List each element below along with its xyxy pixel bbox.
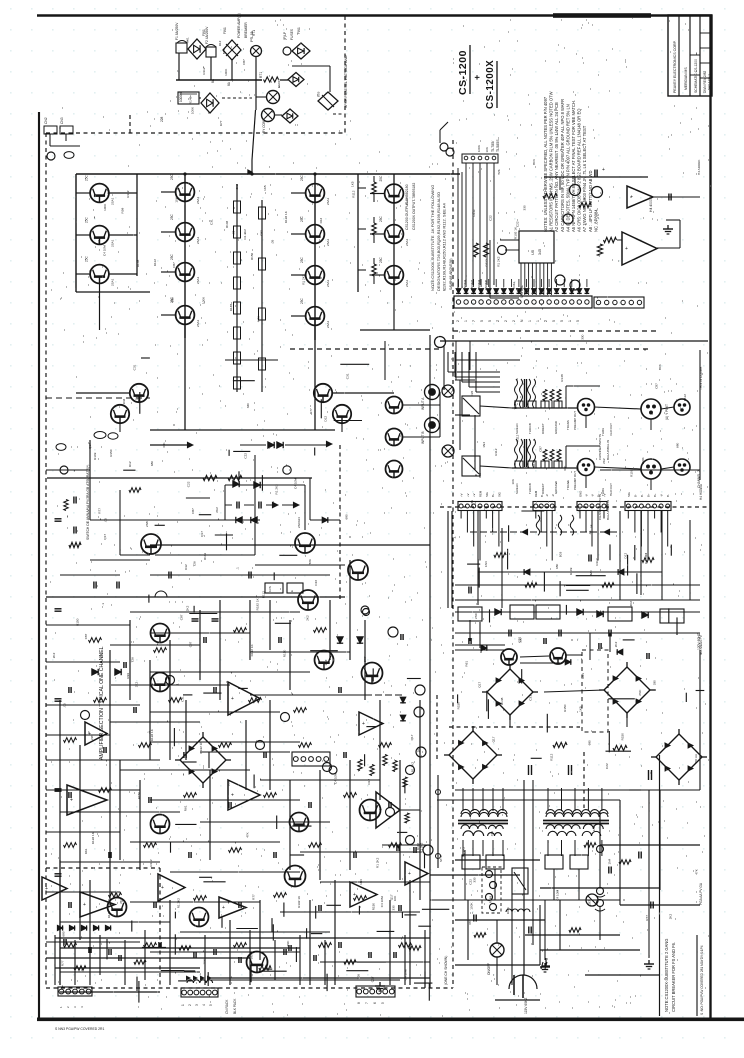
svg-text:FW1: FW1 bbox=[223, 27, 227, 34]
bus wire bbox=[176, 79, 262, 81]
svg-text:25C: 25C bbox=[170, 213, 174, 220]
svg-text:CS-1200: CS-1200 bbox=[457, 50, 469, 95]
svg-text:C87: C87 bbox=[654, 383, 658, 389]
svg-text:10K: 10K bbox=[511, 478, 515, 484]
resistor R249 bbox=[354, 896, 367, 901]
wire bbox=[55, 967, 200, 969]
wire bbox=[250, 694, 365, 696]
wire bbox=[76, 192, 91, 194]
svg-text:R112: R112 bbox=[149, 859, 153, 866]
svg-text:SIG: SIG bbox=[627, 492, 631, 497]
capacitor C150 bbox=[398, 905, 400, 911]
jack XLR bbox=[641, 459, 661, 479]
svg-text:A7 1NWG NOT 5903 P/N4 JN .TL L: A7 1NWG NOT 5903 P/N4 JN .TL L6 7 SELECT… bbox=[582, 125, 587, 232]
svg-text:C4 10M: C4 10M bbox=[403, 969, 407, 980]
bridge rectifier CR2 bbox=[604, 667, 650, 713]
svg-text:2SA1: 2SA1 bbox=[405, 238, 409, 246]
wire bbox=[349, 760, 351, 870]
svg-text:2SA1: 2SA1 bbox=[326, 238, 330, 246]
svg-text:2K2: 2K2 bbox=[306, 615, 310, 621]
svg-text:R192 1K: R192 1K bbox=[297, 895, 301, 908]
selector tabs bbox=[515, 461, 523, 468]
wire bbox=[465, 163, 467, 285]
svg-text:R99: R99 bbox=[126, 673, 130, 679]
svg-text:C31: C31 bbox=[470, 500, 474, 506]
svg-text:SWITCH DE AMNA/NA FV/JRA GB A: SWITCH DE AMNA/NA FV/JRA GB ATSURATR(*) bbox=[86, 465, 90, 540]
resistor box bbox=[458, 607, 482, 621]
selector tabs bbox=[515, 401, 523, 408]
svg-text:R1 2K2: R1 2K2 bbox=[243, 229, 247, 240]
title block bbox=[668, 15, 712, 96]
transistor Q5 bbox=[176, 223, 195, 242]
wire bbox=[55, 937, 430, 939]
resistor R251 bbox=[64, 943, 77, 948]
svg-text:25C: 25C bbox=[85, 174, 89, 181]
svg-text:C87: C87 bbox=[189, 641, 193, 647]
wire bbox=[443, 345, 445, 390]
wire bbox=[150, 799, 300, 801]
wire bbox=[269, 600, 271, 650]
svg-text:RY CONN: RY CONN bbox=[262, 118, 266, 133]
svg-text:R77: R77 bbox=[61, 960, 65, 966]
svg-text:+V: +V bbox=[466, 493, 470, 497]
op-amp U11 bbox=[359, 712, 383, 735]
svg-text:R109: R109 bbox=[630, 469, 634, 477]
wire bbox=[209, 770, 211, 860]
svg-text:47K: 47K bbox=[162, 442, 166, 448]
resistor R206 bbox=[314, 628, 327, 633]
transistor Q2 bbox=[90, 226, 109, 245]
wire bbox=[358, 187, 366, 189]
svg-text:25C: 25C bbox=[379, 215, 383, 222]
op-amp U2 bbox=[67, 785, 107, 815]
svg-text:330: 330 bbox=[580, 334, 584, 339]
wire bbox=[563, 279, 565, 287]
wire bbox=[129, 620, 131, 700]
wire bbox=[46, 734, 110, 736]
svg-text:2SC: 2SC bbox=[638, 689, 642, 696]
wire bbox=[490, 297, 519, 299]
wire bbox=[373, 235, 375, 243]
svg-text:4.7K: 4.7K bbox=[256, 315, 260, 322]
svg-text:-V: -V bbox=[545, 494, 549, 497]
svg-text:R112: R112 bbox=[153, 259, 157, 266]
rail bbox=[393, 174, 395, 300]
svg-text:3: 3 bbox=[195, 1004, 199, 1006]
svg-text:C87: C87 bbox=[363, 656, 367, 662]
wire bbox=[110, 684, 230, 686]
wire bbox=[458, 279, 460, 287]
wire bbox=[480, 466, 512, 468]
capacitor C109 bbox=[133, 707, 135, 713]
wire bbox=[46, 661, 120, 663]
lamp1 bbox=[267, 91, 280, 104]
wire bbox=[437, 799, 620, 801]
diode pin bbox=[517, 289, 522, 294]
resistor RL5 bbox=[234, 327, 241, 339]
wire bbox=[89, 880, 91, 985]
resistor bbox=[474, 243, 479, 257]
wire bbox=[329, 600, 331, 660]
ground bbox=[379, 982, 381, 986]
resistor R221 bbox=[299, 743, 312, 748]
resistor R219 bbox=[219, 743, 232, 748]
wire bbox=[465, 279, 467, 287]
transistor Q48 bbox=[108, 898, 127, 917]
transformer secondary bbox=[546, 825, 580, 829]
wire bbox=[565, 446, 567, 468]
dashed box regulator bbox=[582, 650, 608, 732]
balance transformer box bbox=[462, 456, 480, 476]
wire bbox=[291, 233, 306, 235]
note column rule bbox=[659, 755, 661, 1016]
svg-text:C22: C22 bbox=[605, 763, 609, 769]
svg-text:A5 NP NPN 1458/7WH 8P SELECT A: A5 NP NPN 1458/7WH 8P SELECT AT FINAL TE… bbox=[571, 100, 576, 232]
border left bbox=[38, 112, 40, 1020]
wire bbox=[46, 624, 130, 626]
svg-text:R77: R77 bbox=[309, 408, 313, 414]
thermal breaker bbox=[251, 46, 262, 57]
resistor R243 bbox=[109, 893, 122, 898]
wire bbox=[535, 511, 537, 519]
capacitor C120 bbox=[263, 752, 265, 758]
resistor R223 bbox=[379, 743, 392, 748]
wire bbox=[370, 233, 385, 235]
svg-text:2K2: 2K2 bbox=[614, 641, 618, 647]
wire bbox=[299, 935, 301, 985]
svg-text:R150: R150 bbox=[372, 903, 376, 911]
wire bbox=[509, 715, 511, 727]
wire bbox=[161, 231, 176, 233]
op-amp U5 bbox=[80, 892, 115, 917]
terminal bbox=[81, 711, 90, 720]
op-amp U8 bbox=[350, 882, 377, 907]
border top bbox=[37, 14, 712, 17]
resistor bbox=[344, 960, 356, 965]
svg-text:C4 10M: C4 10M bbox=[644, 552, 648, 563]
svg-text:.1: .1 bbox=[176, 683, 180, 686]
transistor Q12 bbox=[385, 184, 404, 203]
svg-text:T26: T26 bbox=[308, 559, 312, 565]
svg-text:REM: REM bbox=[534, 490, 538, 497]
resistor bbox=[553, 742, 567, 747]
svg-text:PREAMP OUT: PREAMP OUT bbox=[573, 471, 577, 490]
diode pin bbox=[509, 289, 514, 294]
wire bbox=[291, 315, 306, 317]
transistor Q46 bbox=[190, 908, 209, 927]
wire bbox=[150, 574, 330, 576]
resistor R235 bbox=[144, 843, 157, 848]
svg-text:2SC: 2SC bbox=[474, 612, 478, 619]
bridge rectifier CR3 bbox=[449, 731, 497, 779]
svg-text:1K5: 1K5 bbox=[351, 181, 355, 187]
resistor RL2 bbox=[234, 252, 241, 264]
capacitor bbox=[55, 608, 62, 610]
resistor R1 bbox=[264, 77, 279, 82]
strip bus bbox=[512, 407, 578, 409]
note column rule2 bbox=[696, 935, 698, 1016]
svg-text:R150: R150 bbox=[282, 650, 286, 658]
svg-text:FUSES: FUSES bbox=[290, 28, 294, 40]
wire bbox=[250, 651, 350, 653]
wire bbox=[249, 930, 251, 985]
bridge rectifier CR10 bbox=[180, 737, 226, 783]
svg-text:BAL/UNBAL IN: BAL/UNBAL IN bbox=[606, 440, 610, 460]
connector J10 bbox=[44, 126, 57, 134]
wire bbox=[373, 194, 375, 202]
resistor R259 bbox=[399, 943, 412, 948]
svg-text:+V: +V bbox=[460, 493, 464, 497]
diode pin bbox=[577, 289, 582, 294]
op-amp U1 bbox=[85, 722, 107, 745]
svg-text:B03: B03 bbox=[222, 48, 226, 54]
svg-text:5: 5 bbox=[552, 320, 556, 322]
capacitor bbox=[55, 873, 62, 875]
resistor box bbox=[536, 605, 560, 619]
capacitor bbox=[63, 939, 65, 945]
capacitor C152 bbox=[108, 949, 110, 955]
wire bbox=[319, 770, 321, 880]
resistor bbox=[543, 390, 547, 401]
svg-text:C87: C87 bbox=[588, 900, 592, 906]
wire bbox=[300, 851, 420, 853]
wire bbox=[495, 279, 497, 287]
resistor R213 bbox=[294, 708, 307, 713]
diode D3 on bus bbox=[288, 73, 304, 87]
cap bbox=[668, 194, 670, 201]
capacitor C116 bbox=[103, 747, 105, 753]
svg-text:25C: 25C bbox=[300, 297, 304, 304]
wire bbox=[496, 920, 498, 943]
wire bbox=[585, 511, 587, 533]
wire bbox=[320, 961, 430, 963]
svg-text:R112: R112 bbox=[516, 434, 520, 441]
wire bbox=[617, 239, 622, 241]
capacitor bbox=[88, 947, 90, 953]
transistor Q47 bbox=[247, 952, 268, 973]
thermal sense circle bbox=[283, 466, 291, 474]
svg-text:CN RACK: CN RACK bbox=[225, 999, 229, 1014]
svg-text:C22: C22 bbox=[518, 637, 522, 643]
transistor Q70 bbox=[501, 649, 517, 665]
op-amp U9 bbox=[42, 877, 67, 900]
transformer T bbox=[461, 809, 507, 814]
wire bbox=[464, 850, 466, 900]
svg-text:330: 330 bbox=[563, 466, 567, 471]
dashed below connector bbox=[453, 330, 656, 332]
svg-text:Q17: Q17 bbox=[88, 443, 92, 449]
resistor bbox=[543, 193, 557, 198]
wire bbox=[477, 511, 479, 605]
svg-text:2K2: 2K2 bbox=[602, 458, 606, 464]
svg-text:E: E bbox=[290, 590, 294, 592]
wire bbox=[561, 788, 563, 811]
wire bbox=[587, 788, 589, 811]
svg-text:C87: C87 bbox=[242, 59, 246, 65]
wire bbox=[249, 600, 251, 660]
wire bbox=[574, 788, 576, 811]
svg-text:A4 (-) DENOTES, 50MA TYP IN P/: A4 (-) DENOTES, 50MA TYP IN P/N 4097 ALL… bbox=[565, 104, 570, 232]
resistor R253 bbox=[144, 943, 157, 948]
wire bbox=[539, 905, 541, 965]
diode pin bbox=[501, 289, 506, 294]
transistor Q1 bbox=[90, 184, 109, 203]
capacitor C158 bbox=[368, 952, 370, 958]
capacitor bbox=[55, 698, 62, 700]
capacitor bbox=[638, 852, 640, 859]
svg-text:D12: D12 bbox=[367, 779, 371, 785]
wire bbox=[180, 931, 330, 933]
wire bbox=[199, 610, 201, 680]
svg-text:R112: R112 bbox=[550, 753, 554, 760]
wire bbox=[653, 196, 700, 198]
wire bbox=[486, 163, 488, 285]
wire bbox=[493, 163, 495, 285]
svg-text:680: 680 bbox=[555, 564, 559, 569]
input jack J12 bbox=[425, 418, 440, 433]
svg-text:1K5: 1K5 bbox=[263, 185, 267, 191]
resistor bbox=[604, 237, 617, 242]
wire bbox=[547, 788, 549, 811]
svg-text:R192 1K: R192 1K bbox=[91, 831, 95, 844]
capacitor C144 bbox=[153, 902, 155, 908]
wire bbox=[571, 279, 573, 287]
resistor bbox=[64, 500, 68, 511]
svg-text:B03: B03 bbox=[658, 364, 662, 370]
svg-text:25C: 25C bbox=[300, 174, 304, 181]
svg-text:SHT 1 OF 1: SHT 1 OF 1 bbox=[707, 74, 711, 90]
svg-text:RT1: RT1 bbox=[259, 72, 263, 78]
svg-text:B03: B03 bbox=[316, 91, 320, 97]
svg-text:R61: R61 bbox=[581, 673, 585, 679]
wire bbox=[370, 193, 385, 195]
svg-text:NOTES: UNLESS OTHERWISE SPECIF: NOTES: UNLESS OTHERWISE SPECIFIED, ALL N… bbox=[543, 96, 548, 232]
svg-text:T26: T26 bbox=[97, 239, 101, 245]
diode pin bbox=[486, 289, 491, 294]
wire bbox=[76, 273, 91, 275]
caps big bbox=[528, 765, 530, 775]
svg-text:A6 CRS: DIO8 OD8 PIN P2 8G2 BO: A6 CRS: DIO8 OD8 PIN P2 8G2 BOARD REF AL… bbox=[577, 108, 582, 232]
svg-text:R150: R150 bbox=[456, 702, 460, 710]
diodes bbox=[92, 669, 98, 675]
transistor Q42 bbox=[315, 651, 334, 670]
wire bbox=[455, 859, 540, 861]
wire bbox=[619, 511, 621, 600]
wire bbox=[120, 554, 150, 556]
terminal bbox=[406, 836, 415, 845]
connector J7B bbox=[625, 502, 671, 511]
svg-text:25C: 25C bbox=[379, 175, 383, 182]
svg-text:100K: 100K bbox=[506, 906, 510, 914]
wire bbox=[47, 477, 312, 479]
connector J4 bbox=[181, 988, 218, 997]
wire bbox=[255, 80, 257, 110]
wire bbox=[492, 511, 494, 533]
svg-text:47K: 47K bbox=[468, 919, 472, 925]
jack phone bbox=[674, 399, 690, 415]
svg-text:2SA1: 2SA1 bbox=[196, 319, 200, 327]
svg-text:R112: R112 bbox=[494, 448, 498, 455]
svg-text:+: + bbox=[45, 886, 48, 892]
wire bbox=[46, 789, 140, 791]
svg-text:C22: C22 bbox=[244, 453, 248, 459]
resistor R217 bbox=[139, 743, 152, 748]
capacitor bbox=[158, 942, 160, 948]
transistor Q6 bbox=[176, 263, 195, 282]
op-amp U7 bbox=[219, 897, 246, 918]
svg-text:680: 680 bbox=[588, 740, 592, 745]
svg-text:A2 CIRCUIT PATTERN NO. ANY NEA: A2 CIRCUIT PATTERN NO. ANY NEAREST .05 5… bbox=[554, 102, 559, 232]
svg-text:B+: B+ bbox=[491, 493, 495, 497]
rail bbox=[314, 174, 316, 340]
svg-text:.05: .05 bbox=[588, 530, 592, 535]
svg-text:D12: D12 bbox=[218, 40, 222, 46]
svg-text:1N4: 1N4 bbox=[359, 879, 363, 885]
wire bbox=[161, 271, 176, 273]
wire bbox=[585, 416, 587, 428]
resistor bbox=[619, 860, 631, 865]
svg-text:REM: REM bbox=[479, 490, 483, 497]
op-amp U3 bbox=[228, 682, 260, 715]
svg-text:2K2: 2K2 bbox=[135, 682, 139, 688]
capacitor C124 bbox=[68, 792, 70, 798]
svg-text:680: 680 bbox=[150, 461, 154, 466]
svg-text:Q17: Q17 bbox=[103, 534, 107, 540]
wire bbox=[480, 406, 512, 408]
resistor bbox=[259, 966, 271, 971]
svg-text:B03: B03 bbox=[532, 159, 536, 165]
wire bbox=[565, 386, 567, 408]
signal bus bbox=[544, 176, 648, 178]
svg-text:MERIDIAN MS: MERIDIAN MS bbox=[684, 67, 688, 90]
wire bbox=[291, 274, 306, 276]
wire bbox=[200, 751, 290, 753]
wire bbox=[699, 650, 701, 790]
connector J6 bbox=[458, 502, 502, 511]
wire bbox=[551, 511, 553, 561]
wire bbox=[540, 949, 640, 951]
coil choke bbox=[506, 909, 530, 912]
diode line bbox=[478, 571, 662, 573]
capacitor C132 bbox=[388, 802, 390, 808]
svg-text:B-: B- bbox=[640, 494, 644, 497]
svg-text:25C: 25C bbox=[170, 253, 174, 260]
svg-text:.05: .05 bbox=[590, 524, 594, 529]
terminal bbox=[363, 609, 370, 616]
svg-text:2SA1: 2SA1 bbox=[326, 197, 330, 205]
svg-text:D12: D12 bbox=[623, 553, 627, 559]
wire bbox=[46, 831, 120, 833]
svg-text:-V: -V bbox=[585, 494, 589, 497]
wire bbox=[600, 469, 700, 471]
svg-text:R192,R199,R148,R150,R112 AND R: R192,R199,R148,R150,R112 AND R112. SEE A… bbox=[442, 203, 447, 291]
diode D8 bbox=[318, 92, 338, 110]
resistor R247 bbox=[274, 893, 287, 898]
cap bbox=[594, 170, 596, 177]
svg-text:25C: 25C bbox=[170, 173, 174, 180]
svg-text:1N4: 1N4 bbox=[324, 660, 328, 666]
resistor R225 bbox=[99, 788, 112, 793]
jack XLR bbox=[641, 399, 661, 419]
diode pin bbox=[585, 289, 590, 294]
svg-text:C22: C22 bbox=[106, 188, 110, 194]
wire bbox=[455, 649, 505, 651]
svg-text:100K: 100K bbox=[202, 296, 206, 304]
dashed bbox=[290, 348, 440, 350]
svg-text:R150: R150 bbox=[563, 704, 567, 712]
capacitor bbox=[650, 902, 652, 909]
dash rail bbox=[339, 445, 341, 600]
